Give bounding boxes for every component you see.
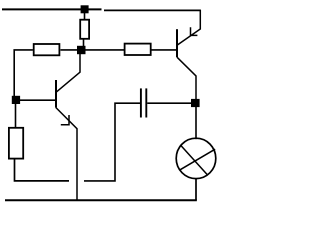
- wire lamp bottom to bottom rail: [195, 178, 197, 200]
- transistor Q1 collector (diagonal + vertical to node B): [56, 54, 80, 92]
- lamp L1 circle: [176, 138, 216, 178]
- transistor Q2 emitter (diagonal + vertical to top rail): [177, 10, 200, 45]
- node B (junction, R1/R2/R3/Q1 collector): [77, 46, 86, 54]
- wire node D to lamp: [195, 107, 197, 139]
- capacitor C1 right plate: [145, 88, 147, 117]
- node A (junction top, +V to R1): [81, 5, 89, 13]
- wire top rail left segment: [2, 8, 102, 10]
- transistor Q2 collector (diagonal + vertical to node D): [177, 57, 196, 99]
- transistor Q2 emitter arrow: [191, 27, 198, 35]
- resistor R4 (vertical, left): [9, 128, 23, 159]
- wire node C to Q1 base: [20, 99, 57, 101]
- transistor Q1 emitter arrow: [61, 115, 69, 125]
- wire crossover right segment up to capacitor C1: [84, 103, 140, 181]
- node D (junction, Q2 collector / C1 / lamp): [191, 99, 200, 107]
- wire node A to R1: [84, 13, 86, 20]
- lamp L1 cross line 2: [179, 149, 215, 170]
- resistor R1 (vertical, top): [80, 20, 89, 39]
- wire R1 to node B: [83, 40, 85, 47]
- node C (junction, Q1 base / R4): [12, 96, 20, 104]
- capacitor C1 left plate: [140, 88, 142, 117]
- wire R2 left lead to corner: [14, 50, 33, 96]
- resistor R3 (horizontal, right): [125, 44, 151, 55]
- lamp L1 cross line 1: [180, 145, 207, 175]
- wire R4 bottom to stub left of crossover: [15, 159, 70, 181]
- transistor Q1 emitter (diagonal + vertical to bottom rail): [56, 107, 77, 200]
- resistor R2 (horizontal, left): [34, 44, 60, 55]
- wire R3 to Q2 base: [151, 49, 177, 51]
- wire top rail right segment: [104, 9, 201, 11]
- transistor Q2 base bar: [176, 29, 178, 57]
- wire node C down to R4: [15, 104, 17, 128]
- wire node B to R3: [85, 49, 124, 51]
- wire bottom rail: [5, 199, 197, 201]
- transistor Q1 base bar: [55, 80, 57, 107]
- wire node B to R2: [61, 49, 78, 51]
- wire C1 right lead to node D: [147, 102, 192, 104]
